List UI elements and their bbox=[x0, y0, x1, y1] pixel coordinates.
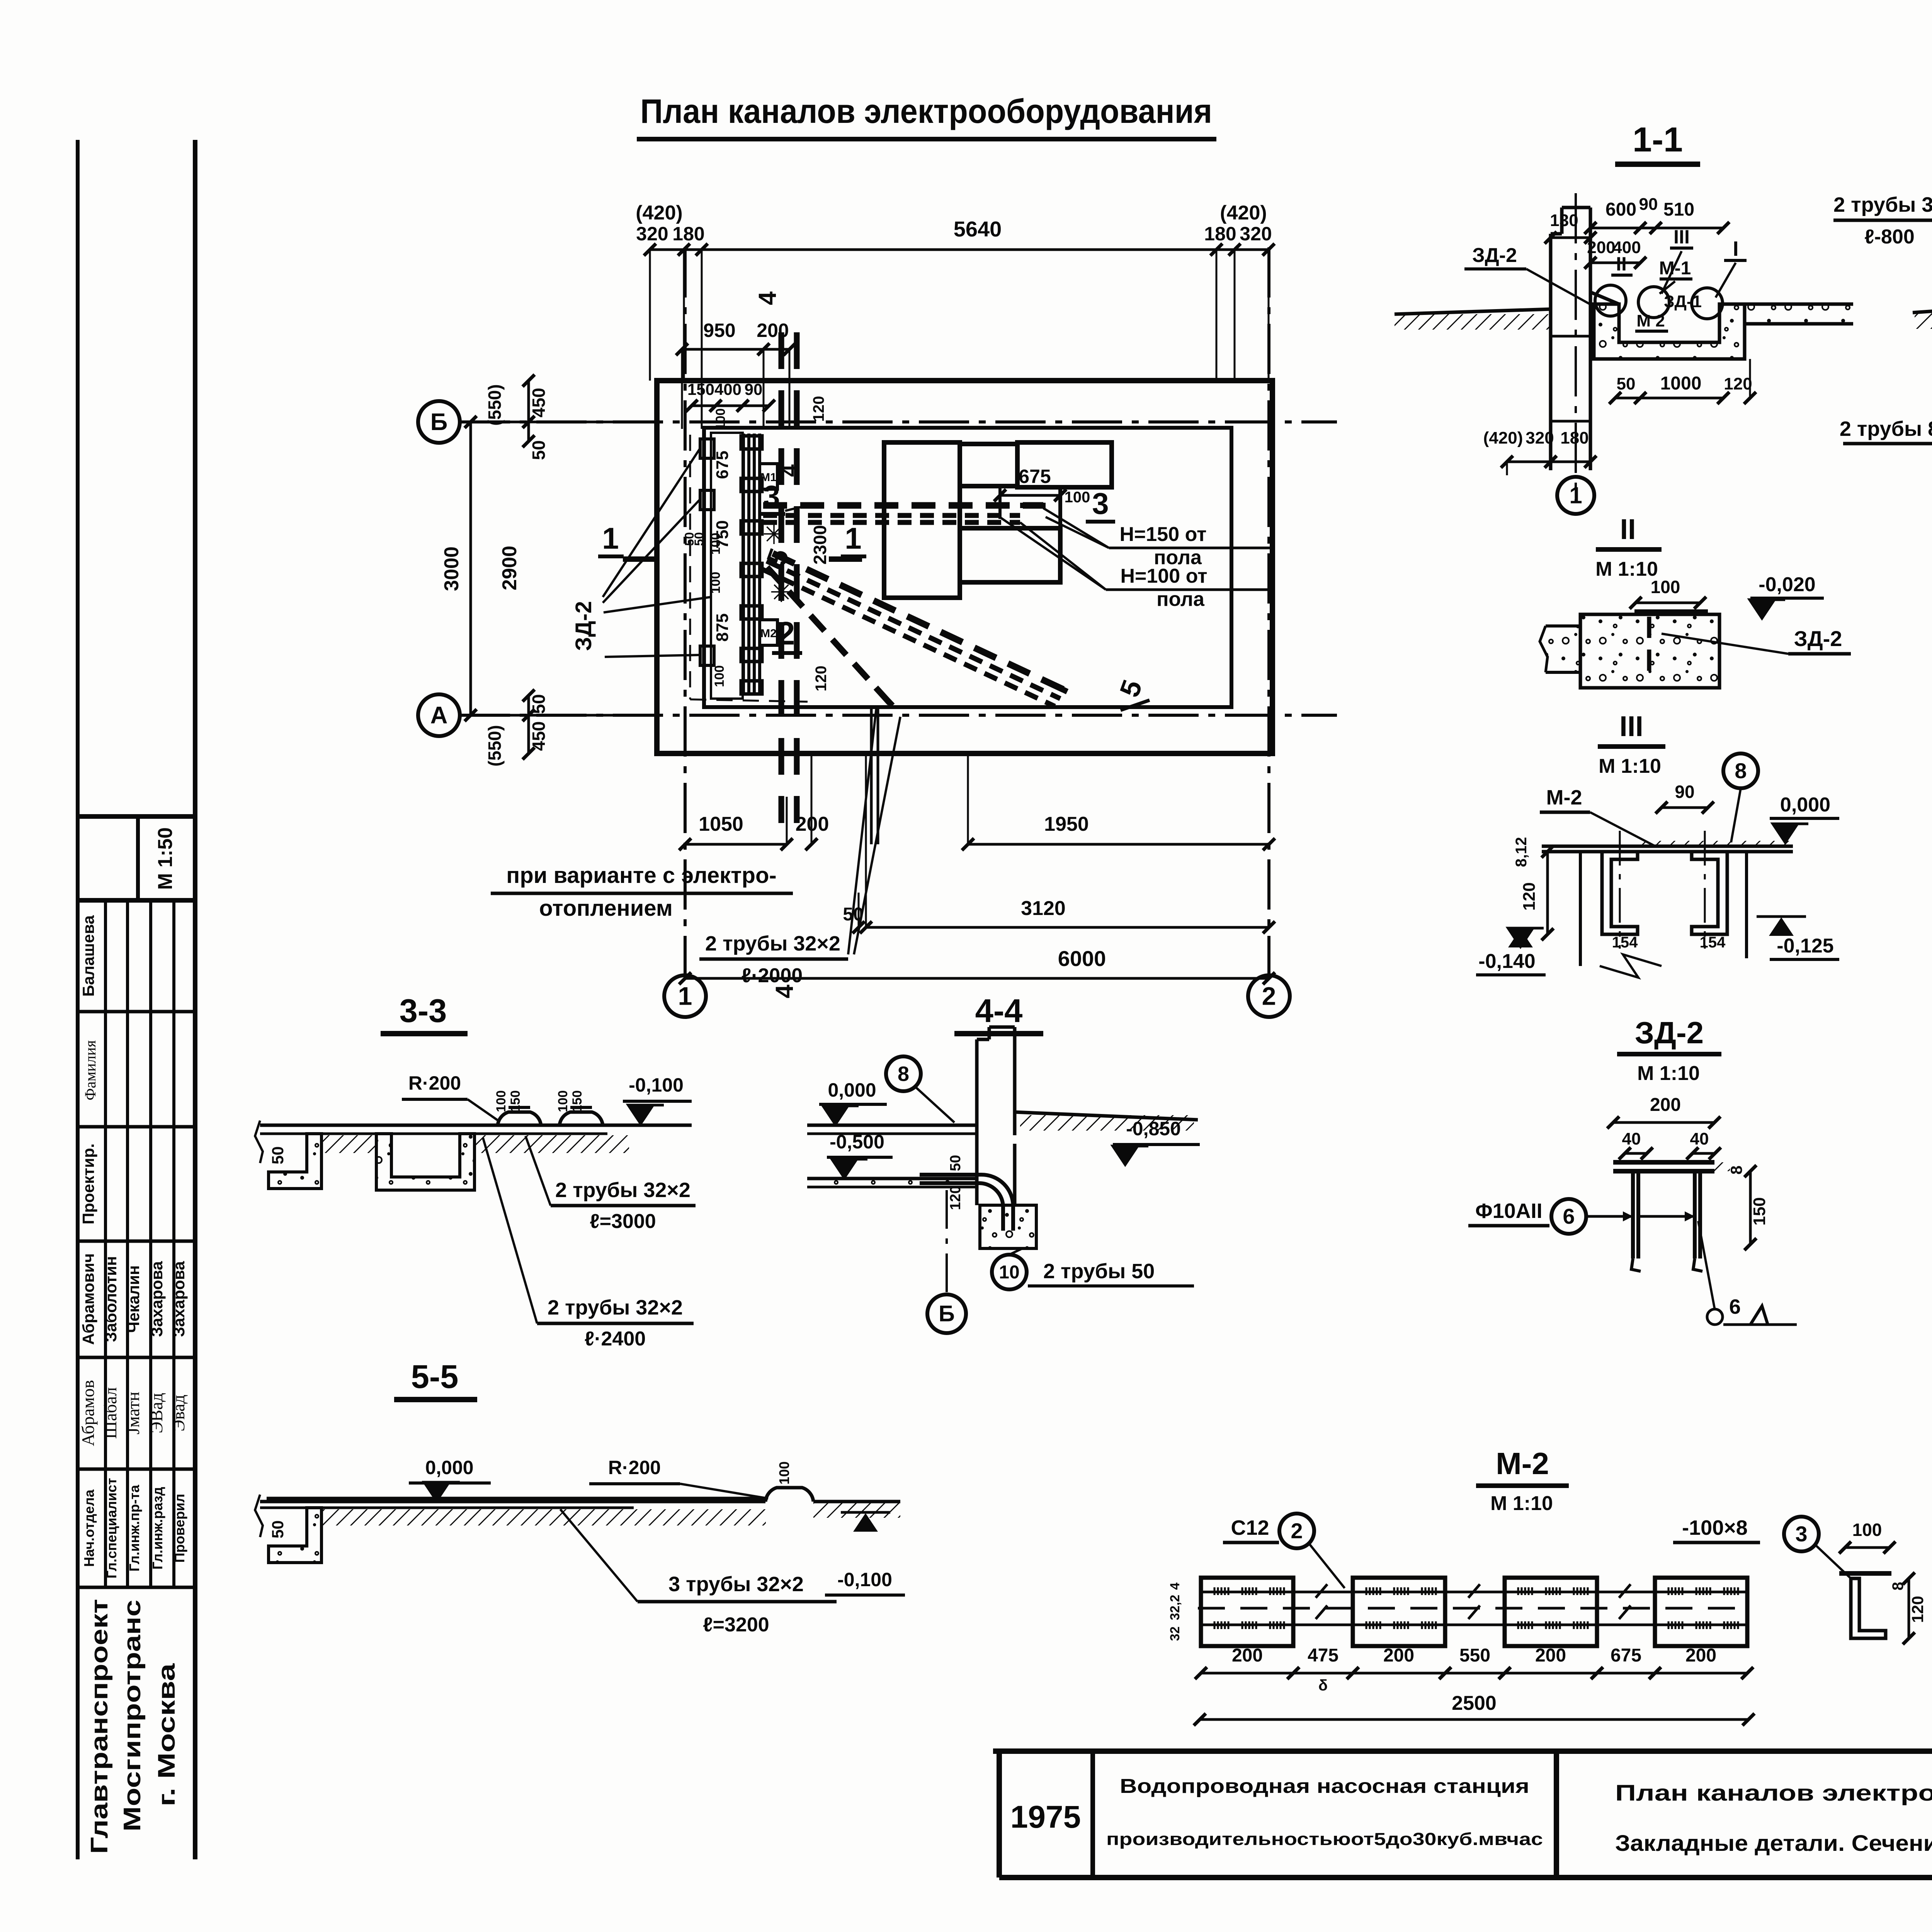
svg-text:Балашева: Балашева bbox=[79, 915, 97, 997]
svg-text:1: 1 bbox=[1569, 482, 1582, 508]
svg-text:II: II bbox=[1616, 253, 1627, 275]
plan building outer walls bbox=[657, 381, 1272, 753]
svg-text:50: 50 bbox=[269, 1146, 287, 1165]
svg-text:875: 875 bbox=[713, 613, 732, 641]
svg-text:40: 40 bbox=[1622, 1129, 1641, 1148]
svg-text:2: 2 bbox=[1291, 1519, 1303, 1543]
svg-text:120: 120 bbox=[1908, 1596, 1927, 1623]
svg-text:ℓ-800: ℓ-800 bbox=[1864, 226, 1915, 248]
5-5 left wall footing bbox=[269, 1508, 321, 1563]
svg-text:150: 150 bbox=[1750, 1197, 1769, 1225]
svg-text:3: 3 bbox=[1795, 1522, 1807, 1546]
ZD-2 anchor bars bbox=[1631, 1171, 1635, 1259]
svg-text:400: 400 bbox=[714, 380, 742, 398]
3-3 left wall footing bbox=[269, 1134, 321, 1189]
svg-text:120: 120 bbox=[947, 1185, 964, 1210]
svg-text:100: 100 bbox=[708, 572, 723, 594]
axis bubble 2 bbox=[1248, 975, 1290, 1017]
svg-text:М-2: М-2 bbox=[1496, 1446, 1549, 1481]
ZD-2 dim 150 bbox=[1749, 1171, 1752, 1244]
5-5 earth hatch bbox=[321, 1509, 766, 1526]
svg-text:2 трубы 32×2: 2 трубы 32×2 bbox=[705, 932, 840, 955]
svg-text:5-5: 5-5 bbox=[411, 1359, 459, 1395]
svg-text:(550): (550) bbox=[485, 725, 505, 766]
svg-text:950: 950 bbox=[703, 320, 735, 341]
svg-text:8,12: 8,12 bbox=[1513, 837, 1530, 867]
svg-text:200: 200 bbox=[1535, 1645, 1566, 1666]
ZD-2 node 6 mark lower bbox=[1698, 1221, 1715, 1310]
svg-text:5640: 5640 bbox=[954, 217, 1002, 241]
svg-text:-0,100: -0,100 bbox=[629, 1074, 684, 1096]
svg-text:I: I bbox=[1733, 237, 1738, 260]
svg-text:150: 150 bbox=[508, 1090, 523, 1112]
svg-text:Jматн: Jматн bbox=[123, 1392, 143, 1435]
svg-text:510: 510 bbox=[1663, 199, 1694, 220]
svg-text:Захарова: Захарова bbox=[170, 1261, 188, 1337]
svg-text:производительностьюот5до30куб.: производительностьюот5до30куб.мвчас bbox=[1106, 1829, 1543, 1849]
svg-text:ℓ=3200: ℓ=3200 bbox=[703, 1614, 769, 1636]
svg-text:при варианте с электро-: при варианте с электро- bbox=[506, 863, 776, 888]
svg-text:Проектир.: Проектир. bbox=[79, 1143, 97, 1225]
plan axis A line bbox=[460, 714, 1337, 717]
section cut 4-4 dashed pair bbox=[779, 332, 784, 823]
svg-text:2 трубы 32×2: 2 трубы 32×2 bbox=[1833, 193, 1932, 216]
trench open strip outline bbox=[711, 433, 743, 699]
svg-text:М 1:10: М 1:10 bbox=[1490, 1492, 1553, 1515]
1-1 bottom dims 150 1000 120 bbox=[1615, 397, 1723, 400]
M-2 plan strip rectangles bbox=[1201, 1578, 1293, 1646]
svg-text:6: 6 bbox=[1563, 1204, 1575, 1228]
strip scale box M 1:50 bbox=[78, 814, 195, 819]
svg-text:3000: 3000 bbox=[440, 546, 463, 591]
box M2 bbox=[760, 620, 777, 645]
1-1 axis bubble 1 bbox=[1557, 477, 1594, 514]
svg-text:50: 50 bbox=[1617, 374, 1636, 393]
trench dashed outline bbox=[689, 435, 691, 699]
title block dividers bbox=[1090, 1751, 1095, 1878]
svg-text:1: 1 bbox=[845, 521, 861, 555]
svg-text:0,000: 0,000 bbox=[425, 1457, 473, 1478]
plan cable trench channel at left wall bbox=[742, 434, 745, 696]
svg-text:180: 180 bbox=[1560, 429, 1588, 447]
dim 3120 / 50 bbox=[866, 926, 1269, 929]
svg-text:М 1:50: М 1:50 bbox=[154, 827, 177, 890]
svg-text:2900: 2900 bbox=[498, 546, 521, 590]
svg-text:0,000: 0,000 bbox=[1780, 794, 1830, 816]
svg-text:150: 150 bbox=[570, 1090, 585, 1112]
svg-text:Шабал: Шабал bbox=[100, 1387, 120, 1439]
svg-text:Главтранспроект: Главтранспроект bbox=[86, 1599, 113, 1854]
horizontal cable bundle 3 bbox=[763, 502, 1043, 509]
svg-text:-0,140: -0,140 bbox=[1478, 950, 1535, 973]
detail III side walls bbox=[1579, 852, 1582, 966]
svg-text:М 1:10: М 1:10 bbox=[1595, 558, 1658, 580]
3-3 cable trench pit bbox=[376, 1134, 474, 1190]
svg-text:475: 475 bbox=[1308, 1645, 1338, 1666]
svg-text:3: 3 bbox=[1092, 486, 1109, 520]
ZD-2 plates on wall bbox=[700, 439, 714, 458]
svg-text:III: III bbox=[1619, 710, 1643, 742]
svg-text:200: 200 bbox=[1650, 1095, 1681, 1115]
svg-text:ЭВад: ЭВад bbox=[146, 1393, 166, 1434]
svg-text:50: 50 bbox=[269, 1520, 287, 1539]
svg-text:120: 120 bbox=[810, 396, 827, 422]
detail III break lines bottom bbox=[1600, 954, 1662, 978]
svg-text:δ: δ bbox=[1318, 1677, 1328, 1694]
svg-text:R·200: R·200 bbox=[608, 1457, 661, 1478]
dim 675/100 inside plan bbox=[1000, 494, 1060, 497]
svg-text:90: 90 bbox=[1675, 782, 1694, 802]
box M1 bbox=[760, 464, 777, 489]
svg-text:Закладные детали. Сечения, уз: Закладные детали. Сечения, узлы. bbox=[1615, 1831, 1932, 1856]
svg-text:пола: пола bbox=[1156, 588, 1205, 611]
svg-text:1050: 1050 bbox=[699, 813, 743, 835]
svg-text:1975: 1975 bbox=[1010, 1799, 1081, 1835]
svg-text:Н=150 от: Н=150 от bbox=[1119, 523, 1206, 546]
svg-text:✳: ✳ bbox=[770, 577, 793, 608]
svg-text:130: 130 bbox=[1550, 211, 1578, 230]
4-4 column bbox=[975, 1039, 979, 1205]
svg-text:0,000: 0,000 bbox=[828, 1079, 876, 1101]
svg-text:Водопроводная насосная станция: Водопроводная насосная станция bbox=[1120, 1775, 1529, 1798]
svg-text:(420): (420) bbox=[1220, 202, 1267, 224]
svg-text:-0,020: -0,020 bbox=[1759, 573, 1815, 596]
svg-text:Абрамович: Абрамович bbox=[79, 1253, 97, 1345]
svg-text:120: 120 bbox=[1724, 374, 1752, 393]
left vertical dims 3000/2900 bbox=[469, 422, 472, 715]
cable bundle diagonal to 5 bbox=[773, 553, 1066, 691]
svg-text:Б: Б bbox=[430, 409, 448, 435]
svg-text:Фамилия: Фамилия bbox=[82, 1040, 99, 1100]
svg-text:100: 100 bbox=[712, 665, 727, 687]
plan building inner walls bbox=[704, 428, 1231, 707]
strip stamp grid bbox=[78, 1010, 195, 1014]
svg-text:50: 50 bbox=[529, 694, 549, 714]
svg-text:50: 50 bbox=[947, 1155, 964, 1171]
1-1 axis line bbox=[1575, 193, 1577, 502]
svg-text:100: 100 bbox=[1852, 1520, 1882, 1540]
plan equipment foundations bbox=[884, 442, 960, 598]
svg-text:М 2: М 2 bbox=[1636, 311, 1665, 330]
dim 6000 bbox=[685, 977, 1269, 980]
ZD-2 plate bbox=[1613, 1160, 1714, 1165]
svg-text:План каналов электрооборудован: План каналов электрооборудования. bbox=[1615, 1781, 1932, 1806]
M-2 dims below bbox=[1201, 1672, 1293, 1675]
svg-text:200: 200 bbox=[1685, 1645, 1716, 1666]
svg-text:200: 200 bbox=[1587, 238, 1615, 257]
svg-text:1-1: 1-1 bbox=[1633, 121, 1683, 159]
svg-text:10: 10 bbox=[999, 1262, 1019, 1282]
3-3 floor slab lines bbox=[260, 1124, 692, 1127]
svg-text:ЗД-2: ЗД-2 bbox=[1794, 626, 1842, 651]
svg-text:40: 40 bbox=[1690, 1129, 1709, 1148]
svg-text:(420): (420) bbox=[1483, 429, 1523, 447]
5-5 pipe hump bbox=[765, 1488, 813, 1502]
svg-text:120: 120 bbox=[813, 666, 830, 692]
vertical pair lines near 50 bbox=[870, 706, 873, 844]
svg-text:Б: Б bbox=[939, 1301, 955, 1327]
1-1 ground line left with hatch bbox=[1395, 309, 1551, 314]
svg-text:С12: С12 bbox=[1231, 1516, 1269, 1539]
4-4 circle 10 2truby50 bbox=[992, 1255, 1027, 1289]
5-5 cables thick line bbox=[267, 1497, 767, 1502]
svg-text:М-1: М-1 bbox=[1659, 258, 1691, 279]
svg-text:50: 50 bbox=[692, 532, 706, 546]
svg-text:1: 1 bbox=[678, 981, 692, 1010]
1-1 detail node circles bbox=[1595, 285, 1626, 316]
M-2 weld tick rows bbox=[1214, 1587, 1228, 1595]
svg-text:200: 200 bbox=[757, 320, 789, 341]
svg-text:Н=100 от: Н=100 от bbox=[1120, 565, 1207, 587]
svg-text:50: 50 bbox=[529, 440, 549, 460]
svg-text:-100×8: -100×8 bbox=[1682, 1516, 1748, 1539]
svg-text:200: 200 bbox=[1383, 1645, 1414, 1666]
1-1 top dims 130 600 90 510 bbox=[1551, 236, 1590, 239]
svg-text:отоплением: отоплением bbox=[539, 896, 673, 921]
M-2 channel section right bbox=[1845, 1546, 1889, 1549]
svg-text:600: 600 bbox=[1605, 199, 1636, 220]
svg-text:6: 6 bbox=[1729, 1295, 1741, 1318]
svg-text:Захарова: Захарова bbox=[148, 1261, 166, 1337]
svg-text:-0,100: -0,100 bbox=[837, 1569, 892, 1590]
4-4 upper floor slab bbox=[807, 1124, 977, 1127]
svg-text:г. Москва: г. Москва bbox=[153, 1663, 180, 1806]
svg-text:100: 100 bbox=[1651, 577, 1680, 597]
svg-text:200: 200 bbox=[1232, 1645, 1263, 1666]
svg-text:Эвад: Эвад bbox=[168, 1395, 188, 1431]
svg-text:100: 100 bbox=[1065, 489, 1090, 506]
leaders to cables bbox=[1043, 508, 1109, 548]
4-4 footing bbox=[980, 1205, 1036, 1248]
svg-text:320: 320 bbox=[636, 223, 668, 245]
svg-text:675: 675 bbox=[713, 451, 732, 479]
3-3 pipe humps bbox=[498, 1112, 541, 1125]
title block outer frame bbox=[993, 1748, 1932, 1754]
svg-text:4: 4 bbox=[1168, 1582, 1182, 1590]
axis bubble B bbox=[418, 401, 460, 443]
axis bubble 1 bbox=[664, 975, 706, 1017]
svg-text:Мосгипротранс: Мосгипротранс bbox=[119, 1600, 146, 1832]
svg-text:1950: 1950 bbox=[1044, 813, 1089, 835]
svg-text:320: 320 bbox=[1240, 223, 1272, 245]
4-4 pipe bend bbox=[920, 1175, 1013, 1231]
detail III channel C12 right bbox=[1692, 852, 1727, 934]
M-2 break marks between bbox=[1316, 1584, 1327, 1598]
svg-text:Проверил: Проверил bbox=[172, 1494, 187, 1563]
ZD-2 dim 200 bbox=[1613, 1121, 1714, 1124]
svg-text:90: 90 bbox=[745, 380, 763, 398]
1-1 trench concrete channel bbox=[1594, 304, 1745, 359]
svg-text:М2: М2 bbox=[760, 627, 777, 640]
bottom dims 1050/200 1950 bbox=[685, 843, 787, 846]
M-2 strip connecting lines bbox=[1201, 1591, 1747, 1594]
plan axis 1 line bbox=[684, 247, 687, 974]
detail II anchor dashed bbox=[1647, 617, 1651, 681]
1-1 dims (420) 320 180 bbox=[1507, 461, 1551, 463]
svg-text:3120: 3120 bbox=[1021, 897, 1066, 920]
detail II dim 100 bbox=[1636, 602, 1700, 604]
svg-text:1: 1 bbox=[602, 521, 619, 555]
3-3 earth hatch bbox=[321, 1135, 376, 1153]
svg-text:-0,125: -0,125 bbox=[1777, 935, 1833, 957]
detail II plate on top bbox=[1634, 609, 1708, 614]
svg-text:Гл.специалист: Гл.специалист bbox=[104, 1478, 119, 1578]
svg-text:100: 100 bbox=[713, 408, 728, 430]
svg-text:ЗД-2: ЗД-2 bbox=[1635, 1015, 1704, 1050]
svg-text:154: 154 bbox=[1612, 934, 1638, 951]
svg-text:А: А bbox=[430, 702, 448, 729]
svg-text:550: 550 bbox=[1459, 1645, 1490, 1666]
svg-text:2300: 2300 bbox=[810, 525, 830, 565]
svg-text:180: 180 bbox=[672, 223, 704, 245]
4-4 ground slope right bbox=[1015, 1112, 1198, 1120]
svg-text:3-3: 3-3 bbox=[400, 993, 447, 1029]
svg-text:450: 450 bbox=[529, 388, 549, 418]
svg-text:4-4: 4-4 bbox=[975, 993, 1023, 1029]
detail III channel C12 left bbox=[1602, 852, 1638, 934]
1-1 floor slab right bbox=[1745, 304, 1853, 324]
svg-text:6000: 6000 bbox=[1058, 946, 1106, 971]
svg-text:II: II bbox=[1620, 513, 1636, 545]
svg-text:Заболотин: Заболотин bbox=[102, 1256, 120, 1342]
svg-text:2 трубы 80: 2 трубы 80 bbox=[1840, 417, 1932, 440]
svg-text:5: 5 bbox=[1114, 676, 1148, 701]
svg-text:2500: 2500 bbox=[1452, 1692, 1497, 1714]
axis bubble A bbox=[418, 694, 460, 736]
svg-text:R·200: R·200 bbox=[408, 1072, 461, 1094]
svg-text:675: 675 bbox=[1611, 1645, 1641, 1666]
svg-text:4: 4 bbox=[753, 291, 781, 305]
svg-text:ЗД-1: ЗД-1 bbox=[1664, 292, 1702, 311]
svg-text:III: III bbox=[1673, 226, 1690, 248]
svg-text:2 трубы 32×2: 2 трубы 32×2 bbox=[548, 1296, 683, 1319]
dim 950/200 bbox=[682, 348, 789, 351]
svg-text:1000: 1000 bbox=[1660, 373, 1702, 394]
svg-text:3: 3 bbox=[763, 479, 780, 513]
svg-text:-0,850: -0,850 bbox=[1126, 1118, 1181, 1139]
svg-text:М 1:10: М 1:10 bbox=[1637, 1062, 1700, 1085]
svg-text:(550): (550) bbox=[485, 384, 505, 425]
1-1 dims 200 400 bbox=[1590, 262, 1640, 264]
svg-text:2: 2 bbox=[777, 615, 795, 651]
2-2 ground left hatch bbox=[1913, 303, 1932, 313]
1-1 wall column bbox=[1549, 234, 1553, 470]
detail III top plate bbox=[1542, 845, 1793, 848]
plan axis 2 line bbox=[1267, 247, 1270, 974]
svg-text:ℓ·2400: ℓ·2400 bbox=[585, 1328, 646, 1350]
svg-text:450: 450 bbox=[529, 721, 549, 751]
svg-text:Гл.инж.разд: Гл.инж.разд bbox=[150, 1487, 165, 1570]
svg-text:3 трубы 32×2: 3 трубы 32×2 bbox=[668, 1573, 804, 1596]
svg-text:154: 154 bbox=[1700, 934, 1726, 951]
svg-text:8: 8 bbox=[1727, 1165, 1745, 1174]
svg-text:180: 180 bbox=[1204, 223, 1236, 245]
svg-text:Абрамов: Абрамов bbox=[78, 1380, 98, 1446]
svg-text:ℓ=3000: ℓ=3000 bbox=[590, 1210, 656, 1233]
cable bundle diagonal short bbox=[767, 567, 891, 704]
svg-text:320: 320 bbox=[1526, 429, 1554, 447]
svg-text:675: 675 bbox=[1019, 466, 1051, 487]
svg-text:100: 100 bbox=[494, 1090, 509, 1112]
top dim extension lines bbox=[649, 250, 651, 381]
svg-text:М 1:10: М 1:10 bbox=[1599, 755, 1661, 777]
section cut 1 marks bbox=[623, 556, 656, 562]
svg-text:2 трубы 32×2: 2 трубы 32×2 bbox=[555, 1179, 690, 1202]
svg-text:32: 32 bbox=[1168, 1626, 1182, 1641]
top dimension chain bbox=[650, 248, 1269, 251]
svg-text:8: 8 bbox=[898, 1062, 909, 1085]
svg-text:ℓ·2000: ℓ·2000 bbox=[742, 964, 803, 987]
svg-text:(420): (420) bbox=[636, 202, 682, 224]
detail II concrete block bbox=[1580, 614, 1719, 688]
svg-text:ЗД-2: ЗД-2 bbox=[1472, 244, 1517, 267]
svg-text:8: 8 bbox=[1735, 759, 1747, 783]
svg-text:100: 100 bbox=[708, 533, 723, 555]
svg-text:2: 2 bbox=[1262, 981, 1276, 1010]
svg-text:Φ10АII: Φ10АII bbox=[1475, 1199, 1542, 1223]
svg-text:120: 120 bbox=[1520, 882, 1539, 910]
4-4 lower floor slab bbox=[807, 1177, 977, 1180]
svg-text:Гл.инж.пр-та: Гл.инж.пр-та bbox=[126, 1485, 142, 1571]
left margin strip lines bbox=[76, 140, 80, 1859]
svg-text:32,2: 32,2 bbox=[1168, 1595, 1182, 1620]
svg-text:100: 100 bbox=[556, 1090, 570, 1112]
leaders from note to cables bbox=[848, 708, 876, 954]
svg-text:М-2: М-2 bbox=[1546, 786, 1582, 809]
svg-text:Нач.отдела: Нач.отдела bbox=[81, 1489, 97, 1567]
svg-text:ЗД-2: ЗД-2 bbox=[571, 601, 596, 651]
4-4 axis bubble B bbox=[946, 1190, 948, 1294]
svg-text:90: 90 bbox=[1639, 195, 1658, 214]
svg-text:-0,500: -0,500 bbox=[830, 1131, 884, 1153]
svg-text:Чекалин: Чекалин bbox=[124, 1265, 143, 1333]
svg-text:План каналов электрооборудован: План каналов электрооборудования bbox=[640, 92, 1212, 130]
plan axis B line bbox=[460, 420, 1337, 423]
5-5 floor lines bbox=[260, 1500, 765, 1503]
detail III axes bbox=[1619, 831, 1621, 949]
svg-text:2 трубы 50: 2 трубы 50 bbox=[1043, 1260, 1155, 1283]
svg-text:100: 100 bbox=[776, 1461, 792, 1485]
